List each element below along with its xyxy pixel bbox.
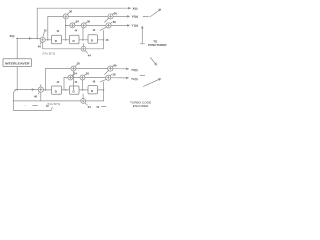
xor T3' 36' [80, 75, 85, 80]
node label 30' [75, 62, 80, 67]
node block labels bottom [57, 80, 96, 84]
xor T1 30 [63, 14, 68, 19]
wire arrow to sheet bottom right [143, 78, 161, 86]
svg-text:Y1(t): Y1(t) [132, 24, 139, 28]
node label 36' mid [84, 72, 89, 76]
wire left tail loop [13, 90, 52, 111]
svg-text:44: 44 [88, 53, 92, 57]
svg-text:X(t): X(t) [133, 6, 138, 10]
wire Y1 parity line [66, 24, 131, 27]
svg-text:30: 30 [77, 62, 81, 66]
node label 36 mid [85, 19, 90, 23]
wire riser x83 taps [82, 28, 85, 47]
wire riser x45.6 to Y0' line [45, 68, 47, 90]
svg-text:Y0(t): Y0(t) [131, 68, 138, 72]
wire adder to feedback rail [42, 42, 44, 48]
node junction input/interleaver [16, 38, 18, 40]
op-amp adder 40' bottom [38, 87, 43, 92]
xor T5 38 right [106, 23, 111, 28]
svg-text:Y1(t): Y1(t) [131, 77, 138, 81]
svg-text:INTERLEAVER: INTERLEAVER [5, 62, 30, 66]
svg-text:(TAIL BITS): (TAIL BITS) [42, 52, 55, 55]
delay D2' bottom [70, 86, 80, 94]
wire register line segments bottom [43, 89, 103, 91]
node output label Y0' [131, 68, 138, 72]
wire interleaver drop lower [16, 67, 18, 90]
wire riser x48 to Y0 line [47, 16, 49, 39]
xor feedback 44 [81, 46, 86, 51]
xor T4' 36' right [108, 66, 113, 71]
wire diagonal arrow mid right [150, 58, 157, 66]
wire register line segments top [45, 39, 103, 41]
wire Y0 parity line [48, 15, 130, 18]
wire systematic top rail X [37, 7, 131, 10]
svg-text:44: 44 [75, 81, 78, 84]
svg-text:50: 50 [97, 106, 100, 109]
wire Y0' parity line [46, 68, 130, 71]
wire feedback rail top encoder [43, 48, 104, 50]
xor T1' 30' [71, 66, 76, 71]
node title ENCODER [133, 104, 149, 108]
svg-text:36: 36 [114, 64, 118, 68]
wire feedback rail bottom [13, 100, 104, 102]
svg-text:42: 42 [57, 30, 60, 33]
wire input line bottom encoder [15, 88, 38, 91]
wire riser x73.5 [73, 71, 75, 90]
node label 38 right [110, 20, 116, 24]
svg-text:(TAIL BITS): (TAIL BITS) [47, 103, 60, 106]
wire riser x82.5 taps bottom [82, 80, 85, 99]
node label 40 [38, 42, 42, 48]
xor T5' 38' right [106, 75, 111, 80]
delay D1' bottom [52, 86, 62, 94]
node label 34' [72, 72, 77, 76]
xor T2' 34' [68, 75, 73, 80]
node label 40' [34, 92, 39, 99]
svg-text:30: 30 [69, 9, 73, 13]
node block labels top [57, 29, 96, 33]
svg-text:34: 34 [74, 72, 78, 76]
svg-text:~: ~ [25, 104, 27, 107]
wire interleaver drop upper [16, 38, 18, 58]
wire riser x65.7 [65, 19, 67, 40]
wire input line to adder [17, 37, 41, 40]
svg-text:40: 40 [38, 45, 42, 49]
node tail bits note [42, 52, 55, 55]
svg-text:32: 32 [44, 28, 47, 32]
svg-text:Y0(t): Y0(t) [132, 15, 139, 19]
wire short dash right [140, 74, 145, 76]
node output label Y1' [131, 77, 138, 81]
wire systematic riser [36, 8, 38, 39]
wire Y1' parity line [64, 77, 129, 90]
svg-text:42: 42 [57, 81, 60, 84]
svg-text:46: 46 [93, 29, 96, 32]
svg-text:38: 38 [113, 20, 117, 24]
node label 36' right [112, 64, 117, 68]
node label 34 [74, 19, 79, 23]
op-amp adder 40 (input XOR) [40, 37, 45, 42]
node output label Y1 [132, 24, 139, 28]
wire adder' to rail [40, 92, 42, 101]
xor T3 36 [81, 23, 86, 28]
svg-text:44: 44 [75, 30, 78, 33]
svg-text:40: 40 [34, 95, 38, 99]
node title TURBO CODE [130, 101, 151, 105]
svg-text:X(t): X(t) [10, 34, 15, 38]
svg-text:36: 36 [87, 19, 91, 23]
svg-text:36: 36 [114, 11, 118, 15]
node label 30 [67, 9, 72, 14]
node label 36 right [112, 11, 117, 15]
node label 32 [43, 28, 47, 36]
node label 44' [85, 103, 106, 109]
node input label X(t) [10, 34, 15, 38]
delay D1 top [52, 35, 62, 44]
xor T2 34 [70, 23, 75, 28]
node label TO PUNCTURER [148, 39, 167, 47]
svg-text:36: 36 [86, 72, 90, 76]
xor feedback 44' [81, 99, 86, 104]
wire arrow to sheet top right [150, 9, 162, 17]
wire riser x103.5 and diagonals bottom [100, 71, 108, 101]
svg-text:34: 34 [76, 19, 80, 23]
xor T4 36 right [108, 14, 113, 19]
delay D2 top [70, 35, 80, 44]
svg-text:PUNCTURER: PUNCTURER [148, 43, 167, 47]
svg-text:48: 48 [106, 39, 109, 42]
interleaver box [3, 59, 32, 67]
node label 32' [40, 85, 42, 87]
svg-text:46: 46 [93, 80, 96, 83]
wire lead line to puncturer [140, 26, 145, 44]
delay D3 top [88, 35, 98, 44]
svg-text:44: 44 [88, 105, 92, 109]
node output label X(t) [133, 6, 138, 10]
node label 38' right [110, 73, 116, 77]
node label 44 [85, 51, 91, 58]
svg-text:38: 38 [112, 73, 116, 77]
delay D3' bottom [88, 86, 98, 94]
node squiggle notes bottom left [25, 104, 50, 108]
wire riser x103.5 and diagonals [100, 19, 109, 49]
svg-text:ENCODER: ENCODER [133, 104, 149, 108]
node output label Y0 [132, 15, 149, 19]
node tail bits note bottom [47, 103, 60, 106]
node tap dots bottom register [45, 89, 104, 91]
node tap dots top register [47, 39, 104, 41]
